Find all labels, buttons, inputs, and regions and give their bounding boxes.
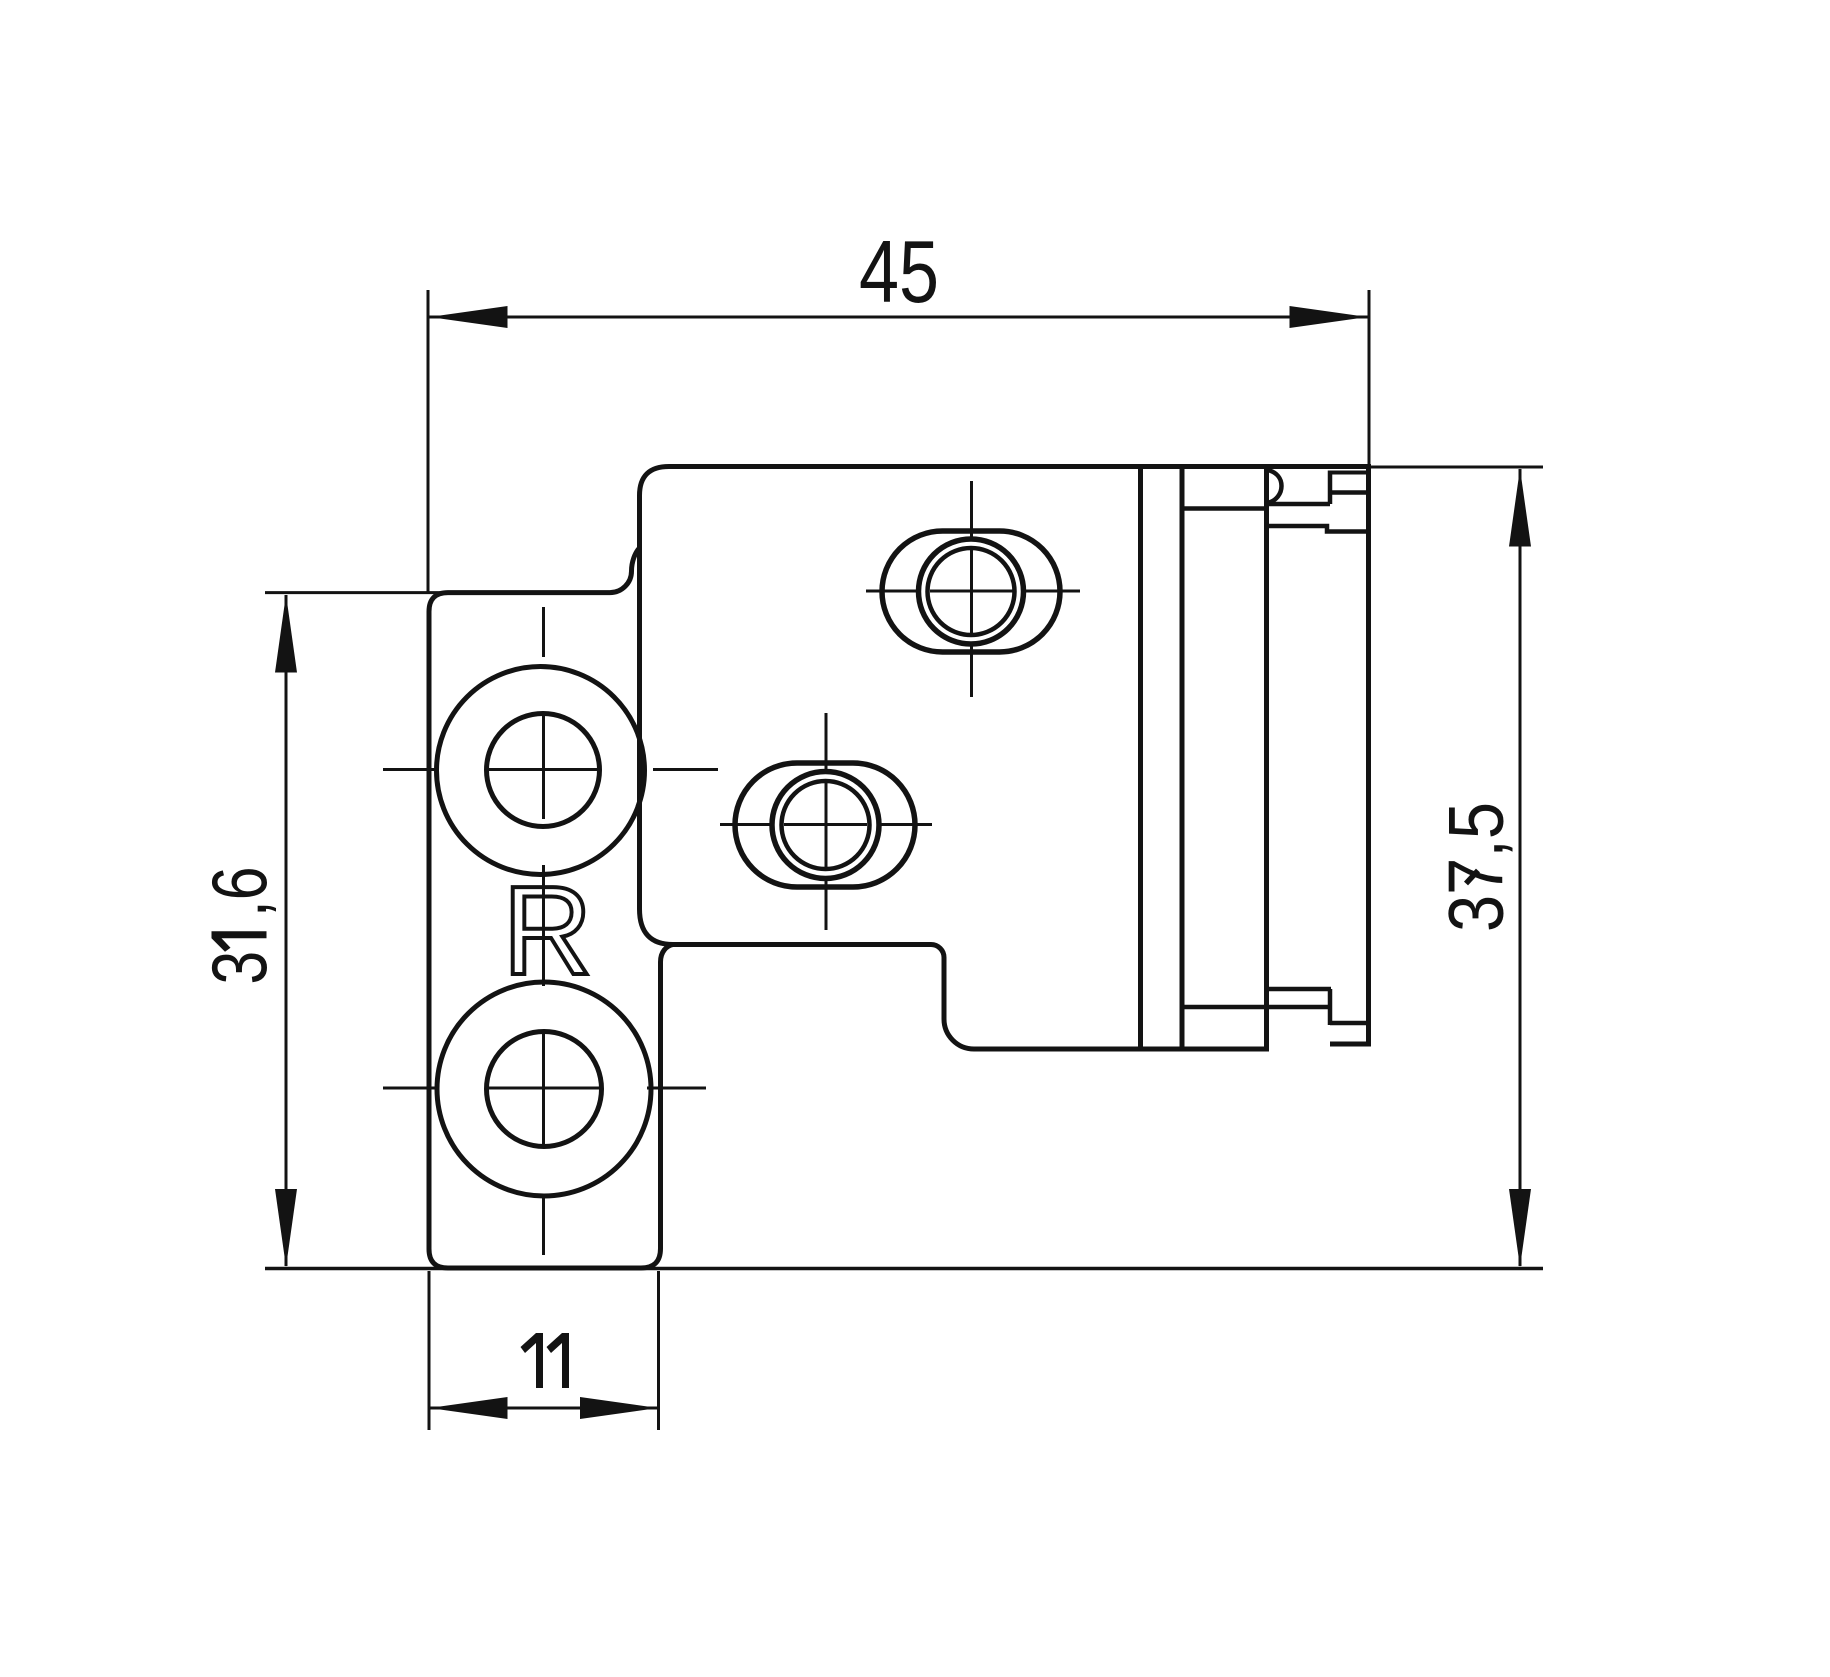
connector top guide step: ledge line at y508 (1184, 506, 1264, 511)
connector flange internal vertical line 2 (1180, 467, 1185, 1050)
dimension 31,6: dimension line (285, 595, 288, 1266)
flange screw hole middle: inner screw circle (782, 781, 870, 869)
dimension 31,6: bottom arrowhead (275, 1189, 297, 1267)
connector bottom guide step: lower tab top line (1330, 1021, 1369, 1026)
flange screw hole middle: outer screw circle (772, 772, 879, 879)
dimension 11: left arrowhead (430, 1397, 508, 1419)
connector bottom guide step: ledge line at y1007 (1184, 1005, 1330, 1010)
dimension 11: right extension line (657, 1271, 660, 1430)
dimension 45: left extension line (427, 290, 430, 592)
centerline horizontal of top-right screw hole (866, 590, 1080, 593)
mounting hole bottom: outer circle (437, 982, 651, 1196)
dimension 45: right arrowhead (1290, 306, 1368, 328)
dimension 31,6: top extension line (265, 591, 450, 594)
centerline vertical of middle screw hole (825, 713, 828, 930)
dimension 11: right arrowhead (580, 1397, 658, 1419)
part outline: housing body bottom stepped edge (640, 909, 1270, 1049)
connector top guide step: upper tab bottom line (1330, 490, 1369, 495)
dimension 45: right extension line (1368, 290, 1371, 466)
mounting hole bottom: inner circle (487, 1032, 602, 1147)
connector bottom guide step: tab left vertical (1328, 989, 1333, 1025)
centerline horizontal of top mounting hole (383, 768, 718, 771)
dimension 45: left arrowhead (430, 306, 508, 328)
connector top guide step: upper tab top line (1330, 471, 1369, 475)
mounting hole top: outer circle (437, 667, 645, 875)
svg-text:37,5: 37,5 (1432, 802, 1520, 932)
svg-text:R: R (503, 860, 593, 1001)
flange screw hole top-right: stadium slot (882, 531, 1060, 652)
dimension 11: value text digit 1 (521, 1333, 544, 1388)
mounting hole top: inner circle (487, 714, 600, 827)
dimension 37,5: top extension line (1370, 466, 1543, 469)
connector top guide step: ledge line at y504 (1267, 502, 1331, 507)
dimension 31,6: top arrowhead (275, 595, 297, 673)
centerline horizontal of middle screw hole (720, 823, 932, 826)
centerline vertical of bottom mounting hole (542, 1031, 545, 1255)
flange screw hole top-right: outer screw circle (919, 539, 1024, 644)
connector flange internal vertical line 3 (1264, 467, 1269, 1050)
centerline horizontal of bottom mounting hole (383, 1087, 706, 1090)
connector top guide step: tab left vertical (1328, 471, 1333, 505)
dimension 11: value text digit 1 (second) (547, 1333, 570, 1388)
part outline: housing body (640, 467, 1369, 1045)
dimension 11: left extension line (428, 1271, 431, 1430)
dimension 37,5: top arrowhead (1509, 469, 1531, 547)
connector bottom guide step: lower tab bottom line (1330, 1042, 1369, 1047)
centerline vertical of top-right screw hole (970, 481, 973, 697)
centerline vertical of top mounting hole and R (542, 607, 545, 986)
connector top latch bump arc (1268, 470, 1282, 503)
dimension 37,5: bottom arrowhead (1509, 1189, 1531, 1267)
connector flange internal vertical line 1 (1138, 467, 1143, 1050)
dimension 37,5: dimension line (1519, 469, 1522, 1266)
flange screw hole top-right: inner screw circle (928, 548, 1015, 635)
svg-text:,6: ,6 (195, 867, 283, 918)
dimension 11: dimension line (429, 1407, 658, 1410)
crossbar of digit 7 in 37,5 (1466, 871, 1478, 884)
shared bottom extension baseline (265, 1267, 1543, 1271)
flange screw hole middle: stadium slot (735, 763, 915, 887)
part outline: plate top edge S-curve into body (604, 548, 640, 593)
dimension 31,6: value text digit 1 (rotated, custom glyph) (212, 931, 267, 952)
svg-text:3: 3 (195, 951, 283, 985)
part outline: left mounting plate (429, 593, 673, 1268)
svg-text:45: 45 (859, 222, 939, 321)
connector bottom guide step: ledge at y989 (1267, 987, 1332, 992)
connector top guide step: lower ledge at y526 with jog (1267, 526, 1369, 532)
dimension 45: dimension line (429, 316, 1368, 319)
